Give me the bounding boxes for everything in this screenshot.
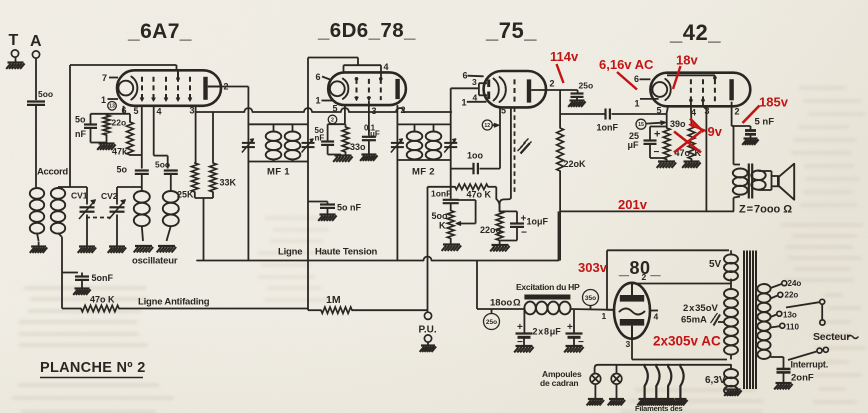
svg-text:185v: 185v [759,95,789,110]
svg-text:+: + [654,129,660,141]
svg-text:6: 6 [463,71,468,81]
svg-text:_6D6_78_: _6D6_78_ [317,19,416,42]
svg-text:P.U.: P.U. [419,325,437,336]
svg-text:1oμF: 1oμF [527,217,549,227]
svg-text:3: 3 [472,77,477,87]
ground [516,345,533,347]
svg-text:+: + [517,322,523,333]
wire AVC bus [196,108,452,112]
ground [335,154,352,156]
node 13 measuring point [108,102,117,111]
ground [443,243,460,245]
wire cathode 75 [510,107,512,197]
coil L1 antenna primary [30,188,44,199]
wire [117,186,142,188]
svg-text:oscillateur: oscillateur [132,256,178,267]
svg-text:K: K [439,221,446,231]
wire HT bus [197,257,559,261]
ground [320,213,336,215]
coil L4 oscillator anode winding [163,191,179,203]
ground [744,137,758,139]
svg-text:39o: 39o [670,119,686,129]
svg-text:3: 3 [626,339,631,349]
diode plates pins 3 4 [487,80,490,88]
suppressor tie wire [667,74,715,76]
wire plate 3 to transformer [631,339,633,360]
dial lamp 1 [590,374,601,385]
wire screen bracket 6D6 [308,57,358,59]
svg-text:5o nF: 5o nF [337,203,362,213]
tube 42 [650,73,750,107]
svg-text:5 nF: 5 nF [755,117,775,128]
svg-text:5: 5 [501,106,506,116]
switch arm upper [786,302,819,307]
svg-text:1: 1 [635,99,640,109]
svg-text:Ligne: Ligne [278,247,302,258]
svg-text:5: 5 [333,103,338,113]
svg-text:nF: nF [75,129,86,139]
shield hatch mark [521,144,530,154]
svg-text:MF 1: MF 1 [267,167,290,178]
svg-text:15: 15 [638,122,644,128]
plate 75 [527,79,531,102]
svg-text:T: T [9,32,19,49]
svg-text:2 x 35oV: 2 x 35oV [683,303,719,314]
svg-text:−: − [654,147,660,158]
wire [35,105,37,187]
grid dashed 75 [514,79,516,101]
trimmer capacitor MF2 secondary [444,142,457,144]
svg-text:1: 1 [316,96,321,106]
wire grid 6A7 tuned circuit [69,65,71,187]
wire [119,308,308,310]
svg-text:7: 7 [102,73,107,83]
svg-text:2 x 8 μF: 2 x 8 μF [533,327,562,337]
ground [658,160,675,162]
svg-text:5: 5 [134,106,139,116]
ground [15,58,17,63]
svg-text:47o K: 47o K [467,190,492,200]
svg-text:Haute Tension: Haute Tension [315,247,378,258]
trimmer capacitor MF1 secondary [302,142,315,144]
terminal secteur upper [820,320,825,325]
svg-text:_42_: _42_ [669,20,721,45]
wire cathode rail 6A7 [91,113,131,115]
coil L2 antenna secondary [51,188,65,199]
wire [570,308,613,311]
output transformer secondary [751,171,765,181]
dial lamp 2 [616,365,618,374]
svg-text:110: 110 [786,323,799,332]
svg-text:2: 2 [331,117,334,123]
svg-text:22o: 22o [785,291,799,300]
svg-text:CV1: CV1 [71,191,88,201]
wire B+ top [607,249,729,251]
tap 110 [771,326,780,327]
svg-text:114v: 114v [550,49,579,64]
tap 24o [771,284,782,288]
svg-text:2: 2 [550,79,555,89]
svg-text:24o: 24o [788,279,802,288]
ground [158,245,175,247]
wire B+ to choke [476,261,478,310]
svg-text:Z = 7ooo Ω: Z = 7ooo Ω [739,204,792,216]
svg-text:MF 2: MF 2 [412,167,435,178]
ground [109,245,125,247]
svg-text:4: 4 [157,106,162,116]
svg-text:47o K: 47o K [90,295,115,305]
ground [588,398,603,400]
tap 22o [771,296,778,299]
tap 13o [771,315,777,318]
svg-text:5oo: 5oo [431,211,448,221]
svg-text:33K: 33K [220,178,237,188]
svg-text:3: 3 [190,106,195,116]
svg-text:1: 1 [101,95,106,105]
wire antifading line [62,308,81,310]
svg-text:33o: 33o [350,142,366,152]
speaker cone [779,164,794,200]
ground [726,388,741,390]
svg-text:2x305v AC: 2x305v AC [653,334,721,349]
pin 4 stub [650,310,658,312]
ground [99,142,115,144]
svg-text:303v: 303v [578,260,608,275]
svg-text:6,3V: 6,3V [705,375,726,386]
wire coupling [559,90,561,128]
ground [639,398,651,400]
svg-text:Filaments des: Filaments des [635,404,682,413]
coil L3 oscillator grid winding [134,191,150,203]
svg-text:1onF: 1onF [597,123,619,133]
svg-text:5oo: 5oo [38,89,53,99]
svg-text:de cadran: de cadran [540,378,578,388]
svg-text:Ligne Antifading: Ligne Antifading [138,297,210,308]
ground [609,398,624,400]
svg-text:25o: 25o [579,81,594,91]
svg-text:4: 4 [384,62,389,72]
svg-text:201v: 201v [618,197,648,212]
wire [58,186,70,188]
wire P.U. line [427,187,429,312]
svg-text:65mA: 65mA [681,315,707,326]
ground [38,242,40,247]
svg-text:35o: 35o [585,295,596,302]
svg-text:Secteur: Secteur [813,331,850,343]
wire oscillator grid pin 5 [141,106,143,169]
svg-text:_75_: _75_ [485,18,537,43]
svg-text:Interrupt.: Interrupt. [791,360,829,370]
svg-text:_80_: _80_ [618,258,662,278]
capacitor 1ouF (cathode bypass) [500,210,517,212]
svg-text:6,16v AC: 6,16v AC [599,57,654,72]
primary winding [757,284,770,293]
svg-text:1: 1 [462,98,467,108]
ground [75,287,90,289]
svg-text:2onF: 2onF [791,373,814,384]
ground [684,160,700,162]
trimmer capacitor MF2 primary [391,142,404,144]
wire filament bus [595,365,731,374]
wire plate 2 to transformer [632,283,727,285]
ground [79,245,95,247]
svg-text:2: 2 [642,272,647,282]
wire grid cap 6A7 [70,64,177,66]
capacitor 5onF (AVC bypass) [308,201,328,203]
wire 6D6 grid line [307,58,309,311]
wiper arm wire [458,199,476,201]
terminal P.U. [424,312,431,319]
node 12 measuring point [482,120,492,130]
wire screen line [560,210,734,212]
svg-text:6: 6 [316,72,321,82]
svg-text:−: − [521,228,527,239]
svg-text:Excitation du HP: Excitation du HP [516,282,580,292]
svg-text:5o: 5o [117,165,128,175]
svg-text:13o: 13o [783,311,797,320]
wire grid dashed to potentiometer [514,107,516,193]
svg-text:18v: 18v [676,53,698,68]
svg-text:1: 1 [602,311,607,321]
switch arm lower interrupteur [771,356,784,358]
wire to HT line [203,198,205,261]
wire pin 3 to 25K [195,106,197,163]
svg-text:5o: 5o [75,115,86,125]
svg-text:1oo: 1oo [467,151,484,161]
ground [421,344,435,346]
svg-text:5oo: 5oo [155,160,170,170]
svg-text:1onF: 1onF [431,189,451,199]
svg-text:25o: 25o [486,319,497,326]
svg-text:Accord: Accord [37,167,68,178]
wire [35,58,37,100]
svg-text:13: 13 [109,104,115,110]
red cross marks [674,132,701,153]
svg-text:5onF: 5onF [92,273,114,283]
wire plate 42 to output transformer [731,102,733,126]
power transformer core [743,251,745,390]
transformer MF2 primary [397,123,433,125]
svg-text:6: 6 [634,74,639,84]
svg-text:18oo Ω: 18oo Ω [490,298,521,309]
terminal secteur lower [823,347,828,352]
wire [396,124,398,260]
svg-text:5: 5 [657,106,662,116]
ground [566,345,583,347]
heater leads [645,365,648,399]
svg-text:3: 3 [372,106,377,116]
svg-text:12: 12 [484,123,490,129]
transformer MF2 secondary [434,123,451,125]
svg-text:22o: 22o [112,118,127,128]
svg-text:4: 4 [654,312,659,322]
wire diode line [450,88,452,187]
node 35o measuring point [583,290,599,306]
tube 80 [614,283,650,339]
svg-text:2: 2 [401,105,406,115]
svg-text:A: A [30,33,42,50]
cathode arcs 75 [494,79,499,101]
ground [776,382,792,384]
svg-text:PLANCHE Nº 2: PLANCHE Nº 2 [40,360,146,376]
ground [570,99,585,101]
trimmer capacitor MF1 primary [242,142,255,144]
output transformer core [748,164,750,199]
svg-text:1M: 1M [326,294,341,306]
tube 6A7 [117,70,221,106]
capacitor 5oo (antenna series) [27,100,45,102]
ground [361,153,376,155]
svg-text:CV2: CV2 [101,191,118,201]
speaker voice coil [772,176,778,186]
svg-text:μF: μF [628,140,640,150]
svg-text:2: 2 [735,107,740,117]
output transformer primary [733,169,748,178]
wire [733,198,735,212]
wire pin 4 oscillator anode [153,106,155,156]
tube 6D6 [328,72,406,105]
svg-text:_6A7_: _6A7_ [127,20,192,43]
wire [221,86,248,88]
transformer MF1 primary [248,123,292,125]
svg-text:+: + [567,322,573,333]
ground [492,244,509,246]
wire plate 75 [546,89,578,91]
gang coupling dashed link [86,217,112,219]
tube 75 [484,71,546,107]
svg-text:22oK: 22oK [564,159,587,169]
node 15 measuring point [636,119,646,129]
center tap hatch [718,321,724,323]
transformer MF1 secondary [293,123,309,125]
svg-text:5V: 5V [709,259,722,270]
svg-text:9v: 9v [708,124,723,139]
node 2 measuring point [328,115,337,124]
node 25o measuring point [484,314,500,330]
ground [135,245,152,247]
